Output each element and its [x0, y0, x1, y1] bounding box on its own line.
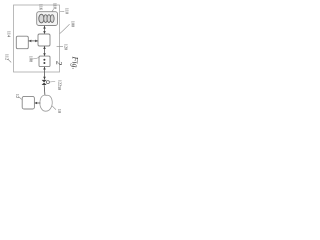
- curved leader from label to small box: [32, 58, 39, 59]
- leader from label B to coil top: [52, 9, 54, 12]
- terminal dot 2: [43, 62, 45, 64]
- label right of valve: [56, 78, 62, 87]
- organ blob: [40, 95, 52, 111]
- enclosure dashed system boundary box: [14, 5, 60, 72]
- terminal dot 1: [43, 59, 45, 61]
- leader from left label to boundary (lower): [8, 59, 11, 62]
- label above coil right: [52, 2, 58, 11]
- label left of small connector box: [27, 55, 33, 64]
- left box: [16, 36, 28, 49]
- figure caption Fig. 2 rotated: [67, 54, 83, 71]
- label far right with curved leader: [69, 20, 75, 29]
- middle box controller: [38, 34, 50, 46]
- arrowhead up into coil: [43, 26, 46, 29]
- label left of border lower: [3, 53, 9, 62]
- wire coil to middle box (double arrow): [44, 26, 46, 34]
- arrowhead right into middle box: [35, 40, 38, 43]
- label above coil left: [38, 3, 44, 12]
- label left of bottom box: [14, 92, 20, 100]
- curved leader from boundary to far right label: [60, 24, 70, 33]
- wire valve to organ blob: [43, 85, 46, 95]
- arrowhead left into left box: [29, 40, 32, 43]
- leader from blob to lower-right label: [52, 106, 56, 110]
- leader crossing right border (mid): [57, 45, 63, 47]
- label left of border upper: [6, 29, 12, 38]
- wire small box down through boundary to valve (double arrow): [44, 67, 46, 80]
- label right of wire below valve: [56, 84, 62, 92]
- coil winding ellipses: [39, 14, 54, 23]
- small connector box with two terminals: [39, 56, 50, 67]
- valve (bowtie): [42, 80, 47, 83]
- pump/coil component 102 (rounded box): [37, 12, 58, 26]
- arrowhead down into middle box: [43, 31, 46, 34]
- wire middle box to small connector box (double arrow): [44, 46, 46, 56]
- bottom-left box: [22, 96, 34, 109]
- leader from valve to label: [50, 81, 56, 84]
- wire left box to middle box (double arrow): [29, 40, 38, 42]
- valve actuator circle: [46, 81, 49, 84]
- label right of blob: [56, 107, 62, 115]
- leader from bottom box label: [19, 97, 22, 100]
- leader to right border label (top): [60, 10, 64, 12]
- label right of border mid: [62, 43, 68, 52]
- wire blob to bottom box (arrow into box): [35, 102, 41, 104]
- label right of border top: [63, 7, 69, 16]
